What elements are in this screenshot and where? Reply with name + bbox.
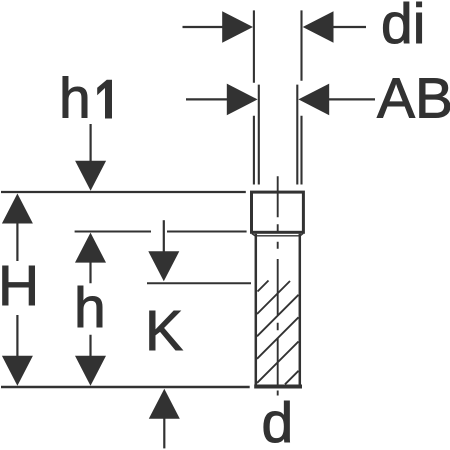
extension line E2 inner-left (AB) <box>258 85 260 185</box>
pipe collar (socket) <box>252 192 304 232</box>
hatch line 3 <box>257 295 299 337</box>
extension line E1 outer-left (di) <box>253 10 255 184</box>
hatch line 2 <box>257 281 290 314</box>
pipe body bottom edge <box>254 385 302 389</box>
hatch line 5 <box>257 342 299 384</box>
svg-text:H: H <box>0 254 39 318</box>
reference line top (crown level) <box>1 191 246 193</box>
extension line E3 inner-right (AB) <box>296 85 298 185</box>
svg-text:d: d <box>262 391 294 450</box>
dimension K down arrowhead <box>148 251 179 281</box>
extension line E4 outer-right (di) <box>300 10 302 184</box>
pipe collar chamfer left <box>252 234 256 237</box>
hatch line 4 <box>257 317 299 359</box>
centerline (axis) <box>277 176 279 395</box>
pipe collar chamfer right <box>299 234 303 237</box>
reference line K level <box>147 282 251 284</box>
dimension di left arrowhead <box>222 11 253 43</box>
dimension di right arrowhead <box>303 11 334 43</box>
dimension d leader line <box>163 417 165 448</box>
label h1 digit <box>97 80 112 119</box>
svg-text:di: di <box>381 0 425 56</box>
dimension K leader line <box>163 220 165 253</box>
svg-text:h: h <box>59 67 91 131</box>
svg-text:K: K <box>145 299 183 363</box>
dimension AB right arrowhead <box>298 84 329 116</box>
dimension H line <box>16 222 18 358</box>
pipe collar lip line <box>255 235 300 237</box>
dimension di right arrow tail <box>332 26 366 28</box>
hatch line 1 <box>258 281 269 292</box>
dimension h top arrowhead <box>75 233 106 263</box>
dimension AB left arrow tail <box>186 98 228 100</box>
reference line bottom <box>1 386 250 389</box>
dimension H top arrowhead <box>2 194 33 224</box>
dimension h1 down arrowhead <box>75 161 106 191</box>
hatch line 6 <box>285 371 299 385</box>
pipe body right wall <box>299 234 302 386</box>
pipe body left wall <box>255 234 258 386</box>
svg-text:h: h <box>74 276 106 340</box>
dimension AB right arrow tail <box>328 98 375 100</box>
dimension H bottom arrowhead <box>2 356 33 386</box>
dimension h1 leader line <box>89 124 91 162</box>
svg-text:AB: AB <box>377 66 450 130</box>
dimension h line <box>89 262 91 358</box>
reference line h level <box>75 231 247 233</box>
dimension h bottom arrowhead <box>75 356 106 386</box>
dimension AB left arrowhead <box>227 84 258 116</box>
dimension d up arrowhead <box>149 389 180 419</box>
dimension di left arrow tail <box>183 26 225 28</box>
